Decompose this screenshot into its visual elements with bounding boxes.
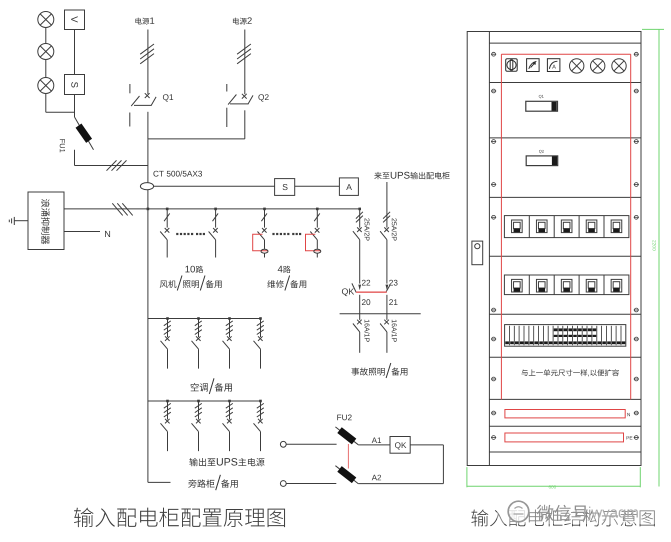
label 来至UPS输出配电柜 [374, 172, 449, 179]
interlock bracket [253, 234, 268, 250]
screw [491, 215, 496, 219]
screw [634, 377, 639, 381]
breaker feeder 1-2 [215, 209, 217, 228]
screw [634, 337, 639, 341]
indicator lamp HL1 [38, 12, 54, 28]
junction [263, 208, 266, 211]
branch breaker [229, 401, 231, 420]
wire [358, 444, 390, 446]
junction [228, 400, 231, 403]
wire [154, 185, 275, 187]
node A2 [372, 475, 381, 481]
indicator lamp HL2 [38, 44, 54, 60]
distribution bus [148, 208, 360, 210]
screw [491, 89, 496, 93]
lamp [570, 59, 584, 73]
junction [166, 317, 169, 320]
label 与上一单元尺寸一样,以便扩容 [521, 369, 619, 376]
cabinet body [467, 32, 641, 466]
wire [244, 110, 246, 139]
node 电源1 [135, 17, 154, 24]
label 旁路柜/备用 [188, 475, 238, 490]
screw [491, 308, 496, 312]
breaker module [561, 279, 572, 292]
wire [14, 220, 28, 222]
door handle [472, 241, 483, 265]
branch breaker [167, 401, 169, 420]
junction [259, 400, 262, 403]
label 10路 [185, 266, 203, 273]
fuse FU2a [335, 427, 358, 445]
junction [166, 208, 169, 211]
panel divider [489, 82, 641, 84]
panel divider [489, 42, 641, 44]
screw [634, 215, 639, 219]
cabinet side panel line [488, 32, 490, 466]
voltmeter icon [527, 59, 540, 72]
coil [314, 249, 321, 253]
ground [13, 217, 15, 225]
wire [264, 254, 266, 258]
breaker module [512, 220, 523, 233]
screw [491, 411, 496, 415]
terminal block strip [505, 325, 626, 347]
breaker feeder 1-1 [166, 209, 168, 228]
panel divider [489, 356, 641, 358]
label 事故照明/备用 [351, 363, 407, 378]
phase marks [140, 44, 154, 54]
terminal [280, 481, 286, 487]
wire [359, 295, 361, 320]
breaker 25A/2P (UPS side) [386, 182, 388, 228]
junction [228, 317, 231, 320]
wire [410, 444, 443, 446]
screw [491, 183, 496, 187]
meter S [275, 179, 295, 196]
meter A [339, 178, 358, 196]
fuse FU1 [75, 117, 94, 150]
lamp [591, 59, 605, 73]
wire [295, 185, 340, 187]
label 输出至UPS主电源 [189, 458, 264, 466]
node 电源2 [233, 17, 252, 24]
screw [491, 337, 496, 341]
phase marks [112, 203, 122, 215]
screw [634, 89, 639, 93]
title 输入配电柜结构示意图 [471, 509, 654, 526]
coil [261, 249, 268, 253]
dots [272, 233, 301, 235]
linkage [347, 444, 349, 469]
breaker module strip [504, 216, 629, 238]
breaker module [561, 220, 572, 233]
label 空调/备用 [191, 378, 232, 394]
phase marks [107, 160, 117, 170]
screw [634, 183, 639, 187]
label 维修/备用 [267, 276, 306, 291]
wire [74, 95, 76, 118]
breaker Q2 [242, 94, 247, 99]
wire [442, 445, 444, 484]
label 4路 [278, 266, 291, 273]
wire [147, 112, 149, 140]
breaker Q1 [145, 93, 150, 98]
screw [491, 377, 496, 381]
wire [286, 443, 336, 445]
screw [491, 52, 496, 56]
bus [340, 313, 421, 315]
terminal [280, 441, 286, 447]
branch breaker [260, 319, 262, 338]
screw [634, 52, 639, 56]
wire [75, 165, 148, 167]
ammeter icon [547, 59, 560, 72]
wire [45, 60, 47, 78]
screw [634, 308, 639, 312]
linkage [356, 291, 387, 293]
wire [46, 111, 75, 113]
breaker 16A/1P (right) [384, 320, 389, 325]
red mounting outline [501, 54, 630, 399]
wire [386, 295, 388, 320]
wire [74, 30, 76, 75]
sub-bus UPS [148, 400, 261, 402]
breaker module [586, 220, 597, 233]
branch breaker [229, 319, 231, 338]
busbar N [505, 410, 625, 418]
sub-bus 空调 [148, 318, 261, 320]
wire [316, 254, 318, 258]
breaker module [611, 279, 622, 292]
screw [491, 436, 496, 440]
panel divider [489, 451, 641, 453]
dimension line width [467, 467, 640, 487]
breaker Q2 front [539, 150, 544, 153]
selector switch S [65, 75, 85, 95]
wire [147, 30, 149, 95]
junction [197, 400, 200, 403]
breaker feeder 2-2 [316, 209, 318, 228]
main bus [147, 139, 149, 482]
relay QK [390, 437, 410, 454]
phase marks [237, 44, 251, 54]
screw [634, 411, 639, 415]
junction [147, 208, 150, 211]
branch breaker [198, 401, 200, 420]
screw [491, 140, 496, 144]
breaker 25A/2P (bus side) [359, 209, 361, 228]
wire [286, 483, 336, 485]
voltmeter V [65, 10, 85, 30]
fuse FU2b [335, 466, 358, 484]
wire [45, 94, 47, 113]
panel divider [489, 255, 641, 257]
junction [316, 208, 319, 211]
breaker module [611, 220, 622, 233]
panel divider [489, 137, 641, 139]
screw [634, 140, 639, 144]
rotary switch icon [506, 59, 518, 71]
node A1 [372, 437, 381, 443]
breaker 16A/1P (left) [357, 320, 362, 325]
breaker module [536, 279, 547, 292]
junction [166, 400, 169, 403]
wire [64, 208, 148, 210]
breaker feeder 2-1 [264, 209, 266, 228]
branch breaker [167, 319, 169, 338]
branch breaker [260, 401, 262, 420]
node N [105, 231, 110, 237]
dimension line height [642, 29, 664, 486]
junction [259, 317, 262, 320]
label 风机/照明/备用 [160, 276, 222, 291]
title 输入配电柜配置原理图 [74, 508, 285, 527]
wire [358, 483, 443, 485]
transfer switch QK [342, 288, 354, 296]
junction [358, 208, 361, 211]
indicator lamp HL3 [38, 78, 54, 94]
breaker Q1 front [539, 95, 544, 98]
surge suppressor 浪涌抑制器 [28, 192, 64, 250]
wire [148, 481, 171, 483]
watermark [497, 496, 660, 524]
junction [197, 317, 200, 320]
current transformer CT 500/5AX3 [140, 183, 153, 190]
wire N [64, 231, 100, 233]
interlock bracket [306, 234, 321, 250]
branch breaker [198, 319, 200, 338]
busbar PE [505, 433, 624, 442]
lamp [612, 59, 626, 73]
wire [45, 28, 47, 44]
panel divider [489, 425, 641, 427]
breaker module strip [504, 275, 629, 295]
panel divider [489, 313, 641, 315]
wire [74, 150, 76, 166]
panel divider [489, 398, 641, 400]
screw [634, 436, 639, 440]
wire [244, 30, 246, 95]
label FU2 [337, 414, 351, 420]
wire [148, 138, 245, 140]
breaker module [512, 279, 523, 292]
breaker module [586, 279, 597, 292]
breaker module [536, 220, 547, 233]
junction [214, 208, 217, 211]
panel divider [489, 196, 641, 198]
dots [176, 233, 205, 235]
